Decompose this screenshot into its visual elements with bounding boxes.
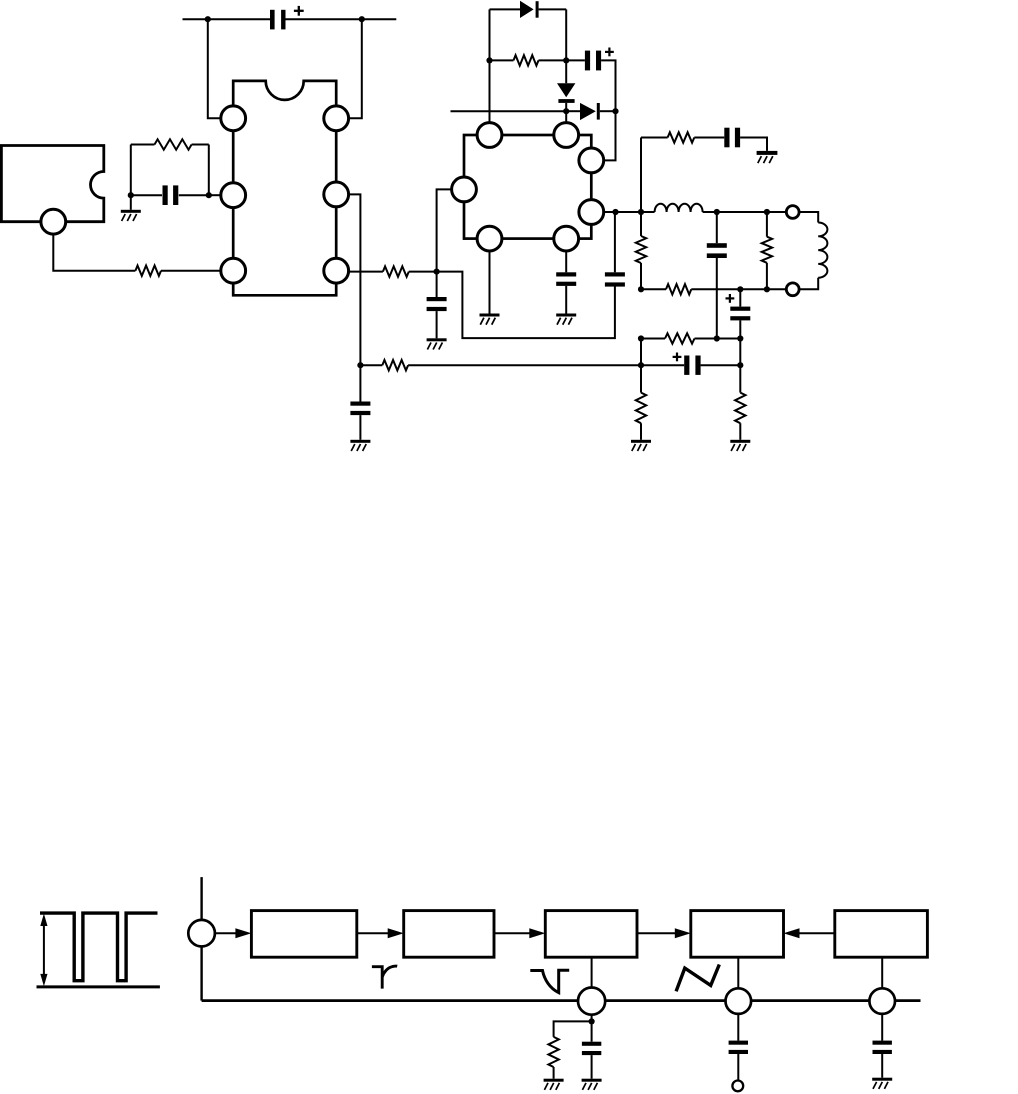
wire node S to R11: [641, 338, 665, 340]
op-amp U1 body: [233, 81, 336, 295]
resistor R4: [514, 55, 539, 65]
ground G3: [556, 314, 576, 325]
summing node S1: [188, 920, 215, 947]
wire U2 pin 3 to ground: [489, 251, 491, 314]
wire C10 to node U: [701, 364, 741, 366]
wire U1 pin 6 to R3: [349, 271, 383, 273]
wire S4 to C14: [881, 1014, 883, 1041]
wire C1 to right node: [286, 18, 397, 20]
ground G10: [582, 1079, 602, 1090]
terminal T3: [732, 1081, 743, 1092]
summing node S2: [578, 988, 605, 1015]
wire node J2 to U2 pin 5: [604, 111, 616, 160]
wire C7 to node J: [614, 212, 616, 272]
pin 2 of U2: [554, 123, 579, 148]
block B5: [835, 911, 928, 958]
inductor L2: [818, 223, 827, 278]
label waveform r: [372, 966, 397, 988]
wire node F to C7 bottom: [437, 272, 615, 339]
capacitor C10: [684, 356, 700, 375]
wire D3 to node J2: [600, 110, 616, 112]
node E junction: [357, 362, 363, 368]
arrow S1 to block B1: [215, 928, 252, 938]
resistor R7: [636, 236, 646, 263]
node V junction: [589, 1018, 595, 1024]
wire R1 to U1 pin 3: [161, 270, 221, 272]
wire node S drop: [640, 339, 642, 366]
node M junction: [764, 209, 770, 215]
wire top supply rail: [183, 18, 271, 20]
resistor R12: [735, 393, 745, 424]
wire transducer to R1: [53, 234, 135, 271]
wire C4 to ground: [436, 311, 438, 338]
wire node T to C10: [641, 364, 684, 366]
wire S1 to feedback rail: [200, 947, 202, 1001]
wire node G to R4: [490, 59, 514, 61]
wire node I to U2 pin 2 top: [565, 111, 567, 122]
diode D3: [580, 103, 600, 120]
pin 2 of U1: [221, 183, 246, 208]
node R junction: [737, 335, 743, 341]
wire node E to C3: [359, 365, 361, 401]
ground G6: [757, 151, 778, 163]
wire left branch of RC pair: [130, 145, 132, 196]
capacitor C2: [163, 185, 179, 205]
wire C9 to node R: [739, 320, 741, 338]
resistor R8: [762, 237, 772, 263]
resistor R13: [548, 1037, 558, 1067]
wire U2 pin 7 to C11: [565, 251, 567, 272]
block B3: [545, 911, 637, 958]
wire node T to R10: [640, 365, 642, 392]
wire L2 to T2: [799, 278, 818, 290]
wire loop right drop: [565, 9, 567, 60]
node T junction: [638, 362, 644, 368]
wire R7 to node N: [640, 263, 642, 289]
capacitor C13: [729, 1041, 748, 1054]
node Q junction: [764, 286, 770, 292]
wire S2 to node V: [591, 1015, 593, 1022]
plus label of C10: [673, 353, 682, 362]
ground G11: [872, 1078, 892, 1089]
wire node E to R6: [360, 364, 382, 366]
ground G7: [631, 440, 651, 451]
plus label of C9: [726, 294, 735, 303]
diode D1: [520, 1, 539, 18]
node P junction: [714, 335, 720, 341]
wire node N to R9: [641, 288, 666, 290]
wire C6 to ground: [740, 138, 767, 151]
wire node V to C12: [591, 1021, 593, 1041]
wire R9 to T2: [691, 288, 786, 290]
wire node H to D2: [565, 60, 567, 83]
label waveform decay pulse: [530, 970, 569, 992]
pin 3 of U1: [221, 258, 246, 283]
node I junction: [563, 108, 569, 114]
wire C13 to T3: [737, 1054, 739, 1081]
capacitor C11: [556, 272, 576, 286]
wire R5 to C6: [694, 137, 724, 139]
pin 3 of U2: [477, 226, 502, 251]
wire R13 to ground: [553, 1067, 555, 1079]
wire node L to C8: [716, 212, 718, 243]
wire D2 to node I: [565, 103, 567, 111]
wire node K to R7: [640, 212, 642, 236]
wire input drop: [200, 877, 202, 920]
capacitor C9: [730, 307, 750, 321]
wire R8 to rail: [766, 263, 768, 290]
wire node D to U1 pin 8: [349, 19, 362, 118]
wire stub left of node I: [451, 110, 567, 112]
wire R3 to node F: [409, 271, 437, 273]
capacitor C7: [605, 272, 625, 286]
ground G5: [350, 440, 370, 451]
resistor R1: [135, 266, 161, 276]
capacitor C1 plates: [270, 10, 286, 30]
node N junction: [638, 286, 644, 292]
waveform pulse train: [40, 913, 158, 981]
resistor R2: [155, 139, 192, 149]
wire R6 to node T: [408, 364, 641, 366]
pin 6 of U2: [579, 200, 604, 225]
node F junction: [434, 269, 440, 275]
pin 8 of U1: [324, 106, 349, 131]
plus label of C5: [605, 48, 614, 57]
node O junction: [737, 286, 743, 292]
pin 5 of U2: [579, 148, 604, 173]
wire node A to C2: [131, 194, 162, 196]
wire inductor to T1: [703, 211, 787, 213]
node L junction: [714, 209, 720, 215]
node H junction: [563, 57, 569, 63]
inductor L1: [655, 204, 703, 212]
wire node C to U1 pin 1: [208, 19, 221, 118]
transducer X1 body: [1, 146, 103, 222]
pin 7 of U1: [324, 182, 349, 207]
wire C3 to ground: [359, 415, 361, 440]
wire top loop right: [539, 8, 567, 10]
ground G8: [730, 440, 750, 451]
wire C11 to ground: [565, 286, 567, 314]
resistor R9: [666, 284, 691, 294]
pin 7 of U2: [554, 226, 579, 251]
wire B4 to S3: [737, 957, 739, 1000]
arrow B1 to B2: [357, 928, 404, 938]
wire R2 to right branch: [192, 144, 209, 146]
capacitor C3: [350, 402, 370, 416]
resistor R11: [665, 333, 695, 343]
node C junction: [205, 16, 211, 22]
wire node H to C5: [566, 59, 585, 61]
amplitude arrow: [40, 914, 47, 987]
capacitor C6: [724, 128, 740, 148]
block B1: [251, 911, 356, 958]
plus label of C1: [294, 6, 304, 16]
wire node R drop: [739, 339, 741, 366]
node J2 junction: [612, 108, 618, 114]
pin 1 of U1: [221, 106, 246, 131]
summing node S3: [726, 988, 752, 1014]
capacitor C14: [873, 1041, 892, 1054]
resistor R10: [636, 393, 646, 424]
node U junction: [737, 362, 743, 368]
wire U2 pin 6 to inductor: [604, 211, 655, 213]
ground G9: [544, 1079, 564, 1090]
resistor R6: [382, 360, 408, 370]
wire R12 to ground: [739, 423, 741, 440]
wire node G down: [489, 59, 491, 61]
node G junction: [486, 57, 492, 63]
wire node K rise: [640, 138, 642, 213]
arrow B5 to B4: [784, 928, 835, 938]
wire R4 to node H: [539, 59, 567, 61]
wire B5 to S4: [881, 957, 883, 1000]
ground G1: [121, 210, 141, 221]
wire C2 to node B: [179, 194, 209, 196]
wire node O to C9: [739, 289, 741, 306]
wire U1 pin 7 to node E: [349, 194, 361, 365]
arrow B3 to B4: [637, 928, 691, 938]
wire top of RC pair: [131, 144, 155, 146]
ground G4: [427, 338, 447, 349]
resistor R3: [383, 266, 409, 276]
wire R11 to node R: [695, 338, 741, 340]
terminal T1: [786, 206, 799, 219]
capacitor C12: [582, 1042, 601, 1055]
node S junction: [638, 335, 644, 341]
capacitor C8: [707, 243, 727, 258]
wire node F to C4: [436, 272, 438, 297]
pin 4 of U2: [452, 177, 477, 202]
node J junction: [612, 209, 618, 215]
label waveform sawtooth: [676, 965, 719, 992]
summing node S4: [869, 988, 895, 1014]
wire to R5: [641, 137, 668, 139]
wire node B to U1 pin 2: [209, 194, 221, 196]
wire node F to U2 pin 4: [437, 189, 452, 271]
wire C5 to right drop: [601, 60, 615, 111]
mixer U2 body: [464, 135, 591, 239]
wire node V to R13: [554, 1021, 592, 1037]
ground G2: [480, 314, 500, 325]
terminal T2: [786, 283, 799, 296]
feedback rail: [202, 999, 921, 1002]
wire B3 to S2: [591, 957, 593, 1000]
node B junction: [206, 192, 212, 198]
block B2: [404, 911, 494, 958]
pin of transducer X1: [41, 209, 66, 234]
wire right branch of RC pair: [208, 145, 210, 196]
wire node M to R8: [766, 212, 768, 237]
node A junction: [128, 192, 134, 198]
wire node U to R12: [739, 365, 741, 392]
diode D2: [557, 83, 575, 103]
pin 1 of U2: [477, 123, 502, 148]
wire node I to D3: [566, 110, 580, 112]
pin 6 of U1: [324, 258, 349, 283]
wire C14 to ground: [881, 1054, 883, 1078]
block B4: [691, 911, 784, 958]
wire R10 to ground: [640, 423, 642, 440]
wire C8 to node P: [716, 258, 718, 339]
arrow B2 to B3: [494, 928, 545, 938]
node K junction: [638, 209, 644, 215]
wire C12 to ground: [591, 1055, 593, 1079]
node D junction: [359, 16, 365, 22]
wire S3 to C13: [737, 1014, 739, 1041]
waveform baseline: [37, 985, 160, 988]
resistor R5: [668, 132, 695, 142]
capacitor C4: [427, 297, 447, 311]
wire top loop left: [490, 8, 521, 10]
wire U2 pin1 rise: [489, 9, 491, 122]
wire node A to ground: [130, 195, 132, 210]
wire T1 to L2: [799, 212, 818, 223]
capacitor C5: [585, 51, 601, 71]
